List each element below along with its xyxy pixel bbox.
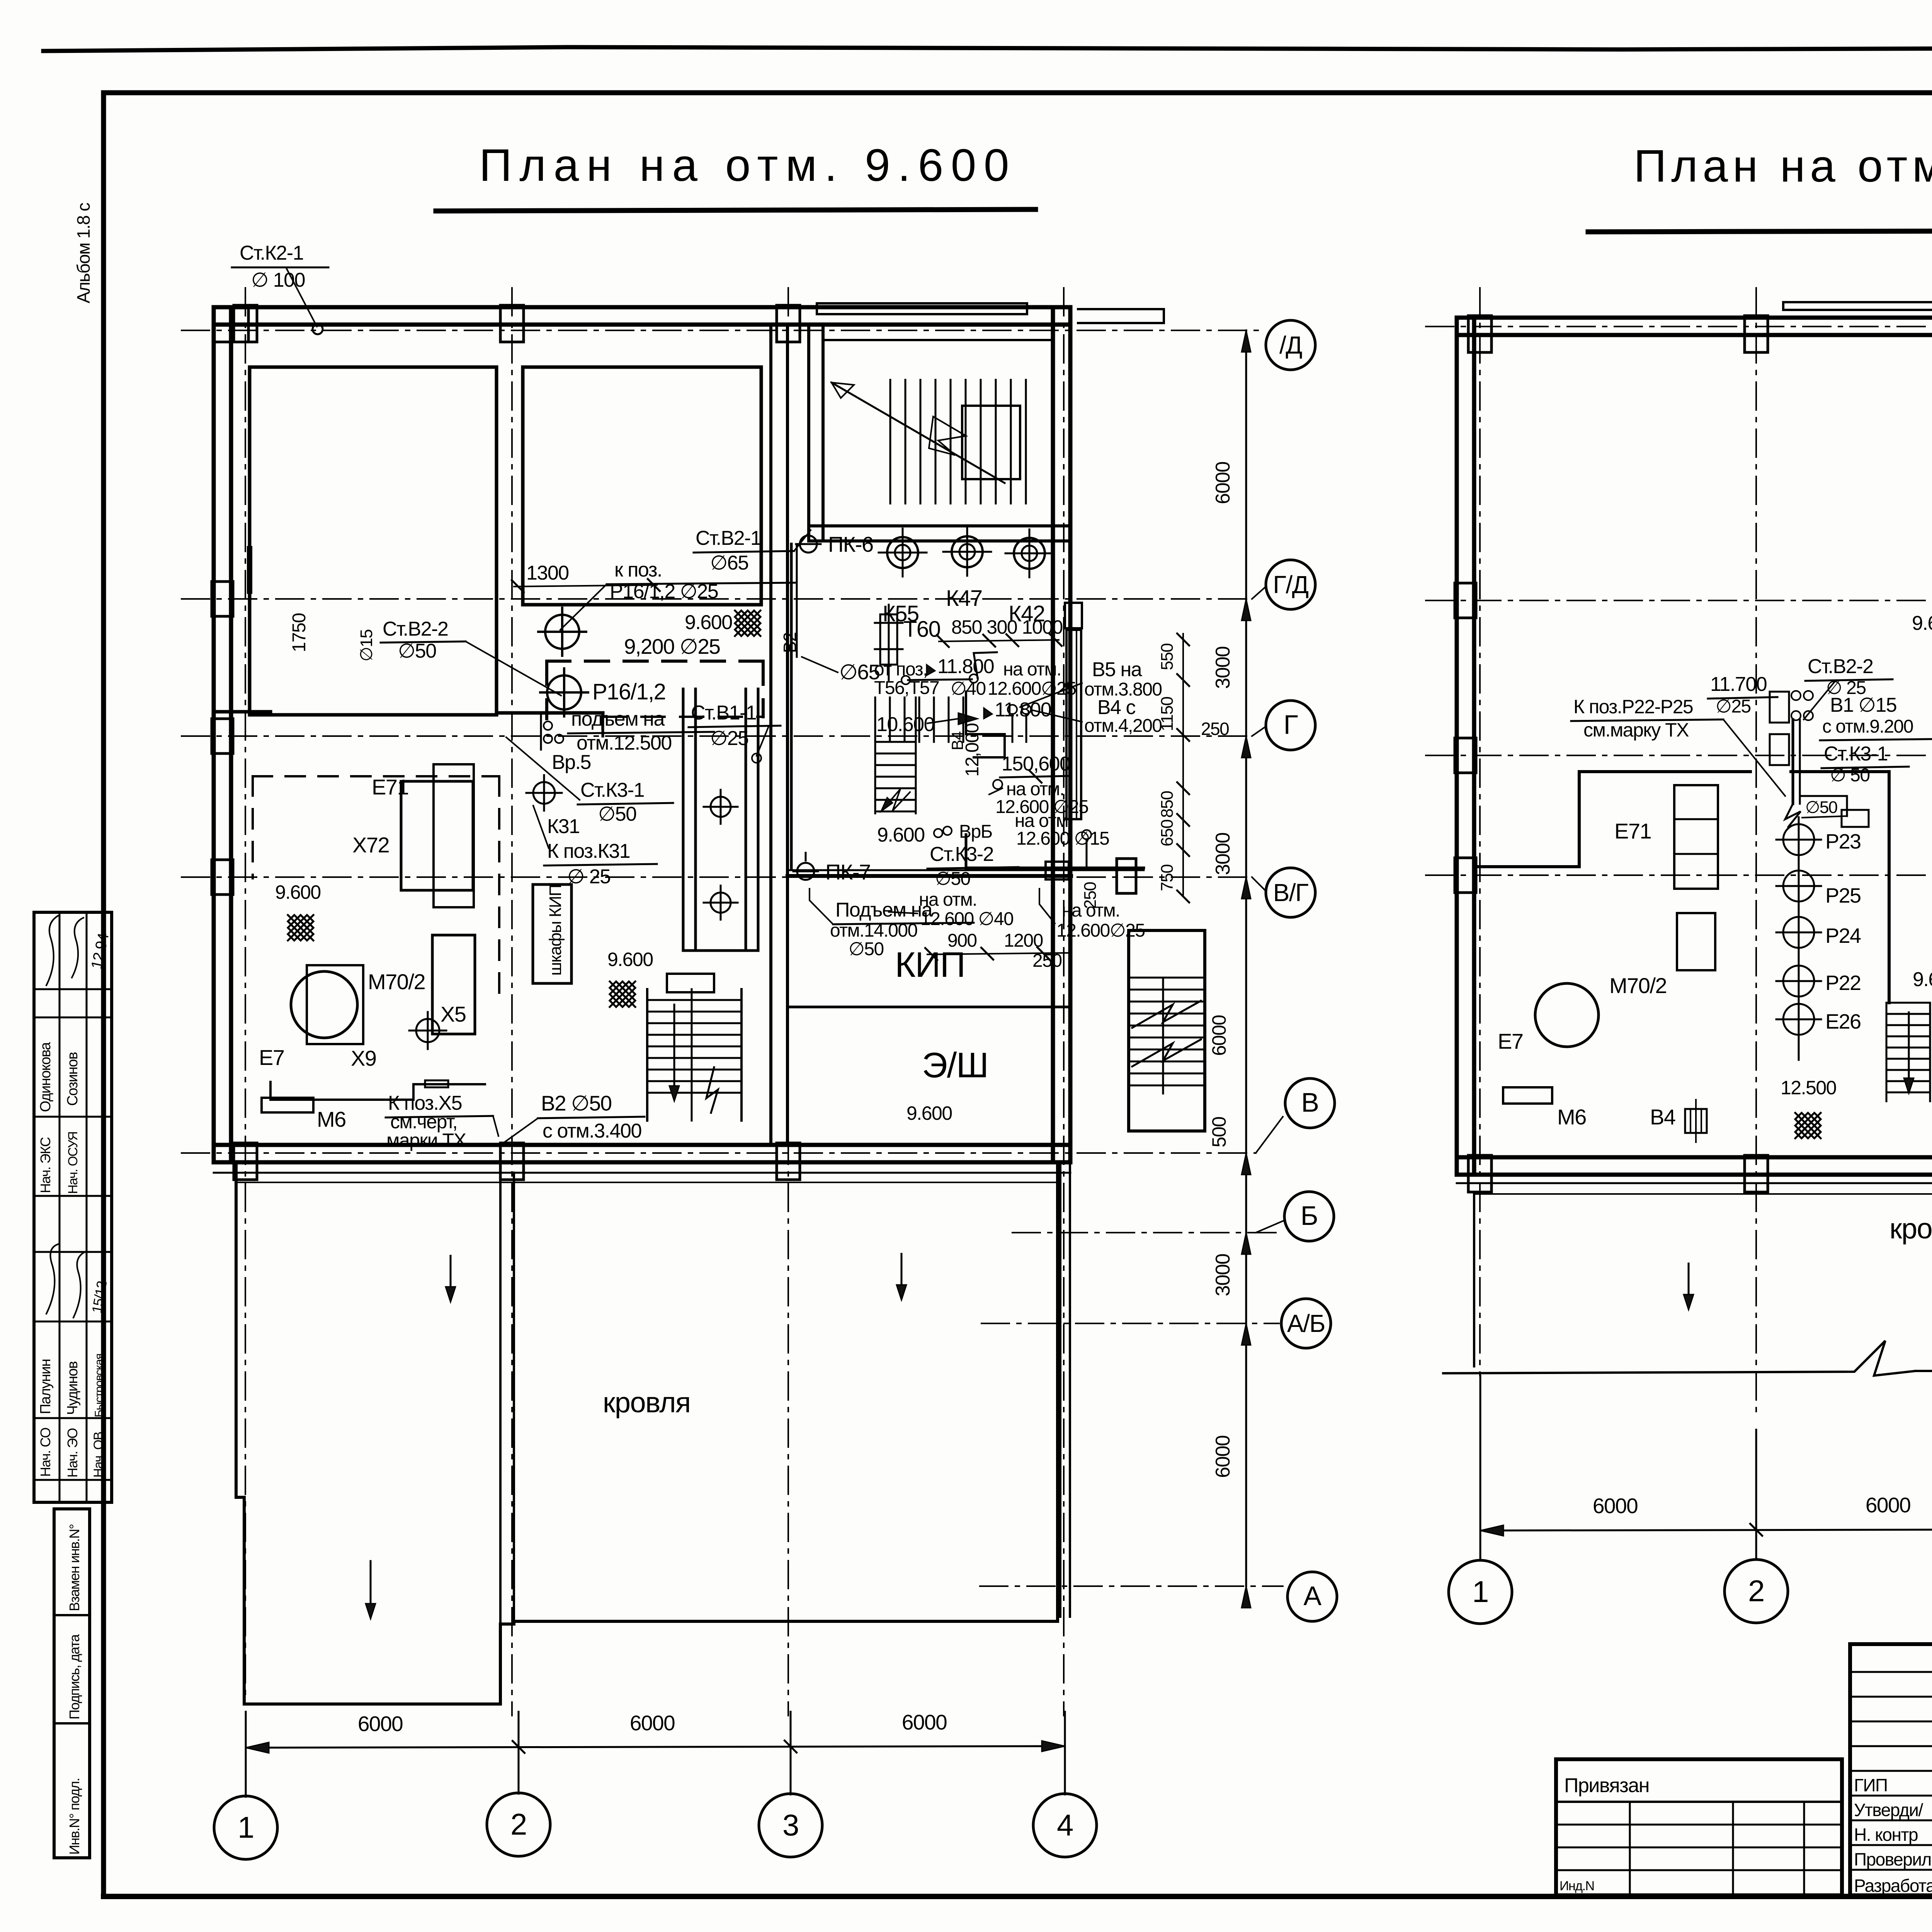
svg-text:Ст.К3-1: Ст.К3-1 — [580, 779, 644, 801]
svg-text:∅15: ∅15 — [357, 629, 376, 662]
svg-text:Г/Д: Г/Д — [1273, 571, 1308, 599]
svg-text:подъем на: подъем на — [571, 708, 665, 730]
svg-text:А/Б: А/Б — [1287, 1310, 1325, 1337]
P16 dashed rect — [547, 660, 763, 663]
svg-text:6000: 6000 — [1212, 1435, 1234, 1478]
valve T60 symbol — [888, 605, 890, 680]
roof ledge lines — [214, 1172, 1070, 1174]
svg-text:1: 1 — [238, 1810, 254, 1844]
interior wall grid3 — [769, 325, 772, 1145]
title 1 underline — [436, 209, 1036, 211]
svg-text:Ст.К2-1: Ст.К2-1 — [240, 242, 303, 264]
svg-text:6000: 6000 — [630, 1711, 675, 1735]
svg-text:6000: 6000 — [1212, 462, 1234, 504]
svg-text:2: 2 — [510, 1807, 527, 1841]
svg-text:12.600∅25: 12.600∅25 — [988, 679, 1076, 699]
svg-text:6000: 6000 — [1866, 1493, 1910, 1517]
column top x635 — [234, 305, 257, 342]
dim arrow y3425 — [1242, 1323, 1251, 1345]
svg-text:К47: К47 — [946, 586, 982, 611]
svg-text:ПК-6: ПК-6 — [828, 532, 873, 556]
svg-text:Привязан: Привязан — [1564, 1774, 1649, 1797]
divider KIP/ESh — [787, 1006, 1070, 1009]
svg-text:М6: М6 — [317, 1107, 346, 1131]
tb central hline 4327 — [1850, 1671, 1932, 1673]
svg-text:6000: 6000 — [358, 1712, 403, 1736]
wall bracket VG — [1046, 862, 1069, 879]
svg-text:9.600: 9.600 — [906, 1102, 952, 1124]
svg-text:Т56,Т57: Т56,Т57 — [874, 678, 939, 698]
svg-text:∅50: ∅50 — [1805, 798, 1837, 817]
svg-text:Х72: Х72 — [352, 833, 389, 857]
dim arrow y1905 — [1242, 736, 1251, 758]
roof drain arrow 2 — [901, 1254, 903, 1289]
svg-text:с отм.3.400: с отм.3.400 — [543, 1120, 641, 1142]
P16 fixture 2 — [547, 675, 581, 709]
dim line bottom — [246, 1746, 1065, 1748]
svg-text:∅65: ∅65 — [710, 552, 748, 574]
axis line V — [182, 1152, 1256, 1154]
top border line — [43, 46, 1932, 51]
stairwell inner landing — [962, 406, 1020, 479]
symbol B4 valve — [1685, 1109, 1707, 1133]
dashed partition E71 — [252, 776, 254, 878]
svg-text:Разработал: Разработал — [1854, 1876, 1932, 1896]
column left r y2265 — [1455, 858, 1476, 893]
svg-text:Подпись, дата: Подпись, дата — [66, 1634, 82, 1719]
grid line 3 — [787, 288, 789, 1716]
svg-text:250: 250 — [1081, 882, 1100, 909]
svg-text:9.600: 9.600 — [275, 881, 321, 903]
axis circle В/Г — [1266, 868, 1315, 917]
svg-text:550: 550 — [1158, 644, 1177, 670]
svg-text:12.600 ∅15: 12.600 ∅15 — [1016, 828, 1109, 849]
dim arrow y855 — [1242, 330, 1251, 352]
svg-text:Вр.5: Вр.5 — [552, 751, 591, 774]
riser Р22 — [1783, 966, 1814, 997]
plumb fixtures — [711, 797, 731, 817]
svg-text:с отм.9.200: с отм.9.200 — [1822, 716, 1913, 737]
fixture К47 — [952, 536, 983, 567]
grid circle r1 — [1449, 1560, 1512, 1624]
stairwell landing slab — [823, 339, 1053, 341]
bottom stair arrow r — [1908, 1012, 1910, 1083]
outer top wall r — [1457, 316, 1932, 320]
hatch left — [288, 915, 313, 940]
svg-text:Х9: Х9 — [351, 1046, 376, 1070]
sidebar table — [34, 912, 112, 1502]
symbol K31 — [533, 782, 555, 804]
title block group — [1556, 1643, 1932, 1910]
tb central outline — [1850, 1644, 1932, 1895]
svg-text:∅25: ∅25 — [1716, 696, 1751, 717]
grid line 1 — [245, 288, 246, 1700]
svg-text:9.600: 9.600 — [1913, 968, 1932, 991]
stairwell treads — [889, 380, 891, 503]
grid line 2 — [511, 288, 513, 1716]
svg-text:12.500: 12.500 — [1781, 1077, 1836, 1099]
tb central hline 4455 — [1850, 1721, 1932, 1723]
tb left vlines — [1629, 1802, 1631, 1895]
svg-text:Ст.К3-2: Ст.К3-2 — [930, 843, 993, 866]
hatch 9.600 r2 — [735, 611, 760, 636]
axis line G — [182, 735, 1252, 737]
bottom stair top rect — [667, 974, 714, 992]
svg-text:Нач. ОСУЯ: Нач. ОСУЯ — [66, 1132, 80, 1194]
svg-text:6000: 6000 — [1593, 1494, 1638, 1518]
pipe risers mid — [544, 721, 552, 730]
roof drain arrow 1 — [450, 1256, 452, 1291]
svg-text:9.600: 9.600 — [877, 824, 925, 846]
column top r x3830 — [1468, 316, 1492, 352]
column grid3 G — [1065, 603, 1082, 628]
equip rect a — [401, 781, 473, 890]
sidebar sig scribble2 — [46, 1244, 58, 1314]
wall G left seg — [216, 710, 270, 714]
svg-text:Одинокова: Одинокова — [37, 1042, 54, 1112]
grid line 4 — [1063, 288, 1065, 1716]
svg-text:Н. контр: Н. контр — [1854, 1825, 1918, 1845]
roof drain r1 — [1688, 1264, 1690, 1299]
VG wall pipes — [788, 869, 1144, 871]
svg-text:Подъем на: Подъем на — [835, 899, 933, 921]
svg-text:Ст.К3-1: Ст.К3-1 — [1824, 743, 1888, 765]
mid stair — [874, 697, 876, 742]
svg-text:В5 на: В5 на — [1092, 658, 1142, 681]
riser Р25 — [1783, 871, 1814, 901]
svg-text:9.600: 9.600 — [685, 611, 732, 634]
svg-text:9,200 ∅25: 9,200 ∅25 — [624, 634, 720, 658]
svg-text:В4: В4 — [948, 731, 966, 750]
svg-text:от поз,: от поз, — [874, 659, 927, 680]
roof drain arrow 3 — [370, 1561, 372, 1608]
column bottom r x3830 — [1468, 1155, 1492, 1192]
svg-text:Инв.N° подл.: Инв.N° подл. — [66, 1778, 82, 1855]
machine M70/2 r — [1535, 983, 1599, 1047]
column top x2040 — [777, 305, 800, 342]
svg-text:шкафы КИП: шкафы КИП — [546, 885, 565, 976]
svg-text:11.800: 11.800 — [937, 655, 994, 678]
svg-text:М70/2: М70/2 — [368, 969, 425, 994]
svg-text:отм.4,200: отм.4,200 — [1084, 716, 1162, 736]
svg-text:марки ТХ: марки ТХ — [386, 1129, 466, 1151]
grid circle 2 — [487, 1793, 550, 1856]
grid circle r2 — [1725, 1560, 1788, 1623]
svg-text:ПК-7: ПК-7 — [825, 860, 871, 884]
svg-text:3000: 3000 — [1212, 1254, 1234, 1296]
outer bottom wall r — [1457, 1155, 1932, 1160]
equip M6 rect — [262, 1098, 313, 1112]
grid tick 2 — [518, 1712, 520, 1794]
hatch c — [610, 981, 635, 1007]
svg-text:Альбом 1.8 с: Альбом 1.8 с — [73, 203, 94, 303]
tb left outline — [1556, 1759, 1842, 1895]
outer left wall r — [1455, 318, 1459, 1175]
svg-text:Е26: Е26 — [1825, 1010, 1861, 1033]
pipe B2 line — [790, 544, 793, 868]
svg-text:Взамен инв.N°: Взамен инв.N° — [66, 1524, 82, 1611]
svg-text:Х5: Х5 — [440, 1002, 466, 1026]
right plan group — [1426, 288, 1932, 1624]
symbol PK-6 — [800, 536, 817, 553]
column top x1325 — [500, 305, 524, 342]
pipe down right — [966, 835, 1144, 868]
axis line G/D — [182, 598, 1252, 600]
svg-text:∅ 25: ∅ 25 — [567, 866, 611, 888]
grid line 2 r — [1755, 288, 1757, 1414]
room 2 upper — [523, 367, 761, 605]
svg-text:2: 2 — [1748, 1574, 1764, 1608]
dim line bottom r — [1480, 1529, 1932, 1531]
svg-text:ВрБ: ВрБ — [959, 821, 992, 842]
column bottom x1325 — [500, 1143, 524, 1180]
svg-text:250: 250 — [1032, 951, 1062, 971]
column bottom x2040 — [777, 1143, 800, 1180]
svg-text:9.600: 9.600 — [1912, 612, 1932, 634]
wall G mid seg — [497, 711, 603, 715]
riser Е26 — [1783, 1004, 1814, 1035]
svg-text:В1 ∅15: В1 ∅15 — [1830, 694, 1896, 716]
svg-text:6000: 6000 — [902, 1710, 947, 1734]
grid line 1 r — [1479, 288, 1481, 1376]
svg-text:Проверил: Проверил — [1854, 1849, 1931, 1869]
equip rect b — [434, 764, 474, 907]
svg-text:Утверди/: Утверди/ — [1854, 1800, 1923, 1820]
column left y2270 — [212, 860, 233, 895]
pipe bottom — [270, 1082, 485, 1100]
svg-text:∅50: ∅50 — [598, 803, 636, 825]
dim arrow y2984 — [1242, 1153, 1251, 1175]
svg-text:Б: Б — [1301, 1201, 1318, 1231]
vent shaft — [1066, 630, 1081, 819]
svg-text:Созинов: Созинов — [65, 1052, 81, 1106]
roof divider double line — [499, 1173, 502, 1624]
equip M6 r — [1503, 1087, 1552, 1104]
axis line V/G r — [1426, 874, 1932, 876]
sidebar lower boxes — [54, 1509, 90, 1858]
outer right wall — [1051, 307, 1055, 1162]
svg-text:на отм.: на отм. — [1003, 659, 1061, 680]
tb central hline 4391 — [1850, 1696, 1932, 1698]
svg-text:11.700: 11.700 — [1710, 673, 1767, 696]
column corner TL — [214, 307, 248, 342]
axis circle Б — [1284, 1192, 1334, 1241]
svg-text:150,600: 150,600 — [1002, 753, 1070, 775]
svg-text:Р16/1,2: Р16/1,2 — [592, 679, 665, 704]
svg-text:Р24: Р24 — [1825, 924, 1861, 947]
svg-text:6000: 6000 — [1208, 1015, 1230, 1056]
KIP top wall — [787, 874, 1071, 878]
svg-text:кровля: кровля — [603, 1386, 690, 1418]
svg-text:Чудинов: Чудинов — [65, 1361, 81, 1415]
svg-text:Ст.В1-1: Ст.В1-1 — [691, 702, 756, 724]
svg-text:отм.14.000: отм.14.000 — [830, 920, 917, 941]
outer top wall — [214, 305, 1070, 310]
svg-text:КИП: КИП — [895, 945, 965, 985]
equip rect c — [432, 935, 475, 1034]
svg-text:Ст.В2-2: Ст.В2-2 — [1808, 655, 1873, 678]
svg-text:3000: 3000 — [1212, 646, 1234, 689]
outer bottom wall — [214, 1143, 1070, 1147]
roof ledge r — [1457, 1182, 1932, 1184]
tb central hline 4839 — [1850, 1869, 1932, 1871]
dashed equip r2 — [1677, 913, 1715, 970]
grid circle 1 — [214, 1796, 277, 1859]
svg-text:В2 ∅50: В2 ∅50 — [541, 1091, 612, 1115]
svg-text:на отм.: на отм. — [919, 889, 977, 910]
svg-text:Р16/1,2 ∅25: Р16/1,2 ∅25 — [610, 580, 718, 603]
dashed equip r1 — [1674, 785, 1718, 889]
dim arrow y4105 — [1242, 1586, 1251, 1608]
svg-text:к поз.: к поз. — [614, 559, 662, 581]
fixture К55 — [887, 537, 918, 568]
svg-text:План на отм. 9.600: План на отм. 9.600 — [479, 140, 1009, 191]
left plan group — [182, 242, 1337, 1859]
riser column r — [1798, 823, 1800, 1060]
column bottom r x4545 — [1745, 1155, 1768, 1192]
ext stair treads — [1130, 977, 1203, 979]
dim arrow y1550 — [1242, 599, 1251, 621]
svg-text:Р22: Р22 — [1825, 971, 1861, 995]
symbol X5 — [416, 1019, 439, 1042]
svg-text:см.марку ТХ: см.марку ТХ — [1583, 719, 1689, 741]
column bottom x635 — [234, 1143, 257, 1180]
svg-text:Э/Ш: Э/Ш — [922, 1046, 988, 1085]
stairwell arrow — [832, 383, 1005, 483]
svg-text:∅ 50: ∅ 50 — [1830, 765, 1870, 786]
axis circle Г — [1266, 701, 1315, 750]
grid tick 1 — [245, 1712, 247, 1797]
svg-text:650: 650 — [1158, 820, 1177, 847]
dim line right — [1245, 330, 1247, 1586]
column left r y1554 — [1455, 583, 1476, 618]
svg-text:В: В — [1301, 1087, 1318, 1117]
column left y1905 — [212, 719, 233, 753]
pipe zig — [1785, 804, 1801, 827]
grid tick 4 — [1064, 1712, 1066, 1794]
pipe run r — [1801, 796, 1847, 816]
axis circle Г/Д — [1266, 560, 1315, 609]
svg-text:∅50: ∅50 — [935, 869, 970, 889]
svg-text:Ст.В2-1: Ст.В2-1 — [696, 527, 761, 549]
axis line B lower — [1012, 1232, 1279, 1233]
svg-text:кровля: кровля — [1889, 1213, 1932, 1245]
column left r y1955 — [1455, 738, 1476, 773]
column left y1550 — [212, 582, 233, 616]
svg-text:Е7: Е7 — [1498, 1029, 1523, 1053]
svg-text:1: 1 — [1472, 1575, 1488, 1609]
svg-text:Нач. ОВ: Нач. ОВ — [91, 1432, 106, 1478]
pipe path mid — [966, 692, 1005, 757]
axis line D r — [1426, 326, 1932, 327]
roof left edge r — [1473, 1194, 1475, 1366]
svg-text:К поз.К31: К поз.К31 — [547, 840, 630, 862]
ext stair break — [1132, 1039, 1201, 1066]
dim arrow y3190 — [1242, 1233, 1251, 1254]
fixture К42 — [1014, 538, 1045, 569]
axis circle А/Б — [1281, 1299, 1331, 1348]
svg-text:3: 3 — [782, 1808, 799, 1842]
svg-text:ГИП: ГИП — [1854, 1775, 1888, 1795]
svg-text:М70/2: М70/2 — [1609, 973, 1667, 998]
svg-text:850: 850 — [1158, 791, 1177, 818]
title 2 underline — [1588, 230, 1932, 232]
svg-text:∅25: ∅25 — [710, 727, 748, 750]
grid tick 3 — [790, 1712, 792, 1794]
svg-text:1300: 1300 — [526, 562, 569, 584]
svg-text:10.600: 10.600 — [876, 713, 934, 736]
mid stair arrow — [881, 789, 910, 811]
svg-text:Нач. ЭО: Нач. ЭО — [65, 1428, 80, 1478]
riser pair — [1008, 705, 1017, 714]
svg-text:Ст.В2-2: Ст.В2-2 — [383, 618, 448, 640]
tb central hline 4647 — [1850, 1795, 1932, 1797]
svg-text:Р23: Р23 — [1825, 830, 1861, 853]
svg-text:500: 500 — [1208, 1117, 1230, 1148]
svg-text:Р25: Р25 — [1825, 884, 1861, 907]
svg-text:11.800: 11.800 — [995, 699, 1051, 721]
axis line A/B — [981, 1323, 1279, 1324]
roof right double — [1059, 1163, 1061, 1617]
svg-text:Т60: Т60 — [903, 617, 940, 642]
svg-text:Е7: Е7 — [259, 1045, 284, 1070]
axis line G/D r — [1426, 600, 1932, 601]
svg-text:∅65: ∅65 — [839, 660, 880, 684]
tb central hline 4583 — [1850, 1770, 1932, 1772]
room 1 upper-left — [250, 367, 497, 715]
bottom stair treads — [647, 999, 742, 1001]
svg-text:4: 4 — [1057, 1808, 1073, 1842]
svg-text:Палунин: Палунин — [37, 1359, 54, 1414]
bottom stair r — [1886, 1002, 1930, 1004]
axis line V/G — [182, 876, 1252, 878]
bottom stair arrows — [673, 1005, 675, 1090]
room1 inner door gap — [247, 549, 252, 591]
svg-text:1750: 1750 — [289, 613, 310, 652]
plumb bay walls — [682, 689, 685, 951]
svg-text:В/Г: В/Г — [1273, 879, 1308, 906]
riser Р24 — [1783, 917, 1814, 948]
axis circle А — [1287, 1572, 1337, 1621]
svg-text:Е71: Е71 — [1614, 819, 1651, 843]
svg-text:Быстровская: Быстровская — [93, 1354, 105, 1417]
grid circle 4 — [1033, 1794, 1097, 1857]
svg-text:Г: Г — [1284, 709, 1298, 740]
svg-text:9.600: 9.600 — [607, 949, 653, 970]
riser Р23 — [1783, 824, 1814, 855]
column top r x4545 — [1745, 316, 1768, 352]
sidebar sig scribble — [46, 916, 58, 985]
svg-text:Нач. ЭКС: Нач. ЭКС — [37, 1137, 53, 1193]
svg-text:750: 750 — [1158, 865, 1177, 891]
axis line A — [980, 1585, 1283, 1587]
roof outline — [236, 1163, 1058, 1704]
pipe jog a — [974, 652, 997, 678]
svg-text:Нач. СО: Нач. СО — [37, 1428, 53, 1477]
svg-text:/Д: /Д — [1279, 331, 1302, 359]
svg-text:А: А — [1303, 1581, 1321, 1611]
axis line G r — [1426, 755, 1932, 756]
axis circle В — [1285, 1078, 1335, 1128]
tb left hlines — [1556, 1801, 1842, 1803]
roof break line r — [1443, 1341, 1932, 1376]
tb central hline 4775 — [1850, 1844, 1932, 1846]
axis line D — [182, 330, 1264, 331]
canopy top r — [1783, 302, 1932, 310]
manifold — [1770, 692, 1789, 723]
svg-text:∅40: ∅40 — [951, 679, 986, 699]
svg-text:В4: В4 — [1650, 1105, 1675, 1129]
